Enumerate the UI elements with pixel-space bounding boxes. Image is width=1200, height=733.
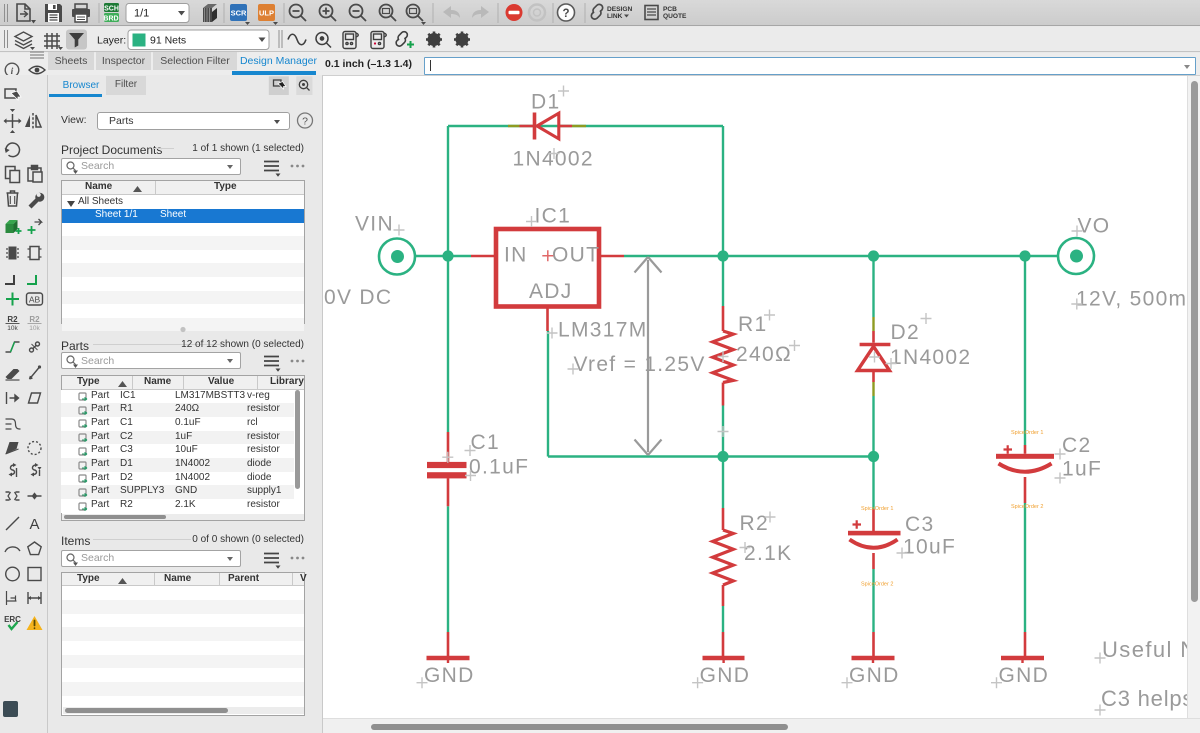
wire D2 lower [872, 396, 874, 457]
svg-text:QUOTE: QUOTE [663, 13, 687, 20]
capacitor C2 leads [1024, 445, 1027, 656]
wire C3 upper [872, 457, 874, 510]
capacitor C3 straight plate [848, 531, 901, 536]
svg-text:IN: IN [504, 244, 528, 267]
pin D1 cathode lead [520, 125, 534, 128]
svg-text:1N4002: 1N4002 [890, 346, 971, 369]
svg-text:LINK: LINK [607, 13, 623, 20]
svg-text:R2: R2 [29, 315, 40, 324]
value LM317M of IC1 [558, 319, 648, 342]
pin stub D2 anode overlap [872, 382, 874, 396]
svg-text:SpiceOrder 2: SpiceOrder 2 [861, 582, 893, 588]
svg-text:SCR: SCR [231, 9, 247, 18]
svg-text:D2: D2 [891, 321, 920, 344]
note 12V 500mA [1076, 288, 1200, 311]
invoke [7, 392, 19, 404]
svg-text:A: A [29, 516, 39, 533]
label C3 [905, 513, 934, 536]
value 10uF of C3 [903, 536, 956, 559]
pin stub D1 anode overlap [508, 125, 520, 127]
pin IC1 IN lead [471, 255, 496, 258]
trash [7, 191, 19, 206]
pcb quote [645, 6, 658, 20]
stop sign red [506, 4, 523, 21]
svg-text:GND: GND [849, 664, 900, 687]
svg-text:SpiceOrder 1: SpiceOrder 1 [1011, 430, 1043, 436]
library icon [203, 4, 217, 22]
add part green cube [6, 220, 22, 234]
label R1 [738, 313, 767, 336]
ground symbol under C1 [427, 658, 470, 663]
pinswap [28, 219, 42, 234]
capacitor C1 leads [447, 432, 450, 656]
pin D1 anode lead [559, 125, 572, 128]
node VIN label [355, 213, 394, 236]
zoom-dot [316, 33, 331, 48]
wire IC1 OUT to VO [624, 255, 1059, 257]
grid icon [44, 33, 60, 49]
svg-text:C2: C2 [1062, 434, 1091, 457]
wire left vertical of D1 net [447, 126, 449, 256]
pin name ADJ [529, 280, 573, 303]
sheet combo [126, 4, 189, 23]
svg-text:R2: R2 [740, 512, 769, 535]
browser/filter tabs [60, 77, 102, 94]
file new icon [17, 4, 30, 21]
mirror [25, 113, 41, 129]
value 1N4002 of D2 [890, 346, 971, 369]
junction at C2 column top [1019, 250, 1030, 261]
bus [6, 419, 21, 429]
port VIN dot [391, 250, 404, 263]
capacitor C2 straight plate [996, 454, 1054, 459]
AB label icon [27, 293, 43, 305]
svg-text:D1: D1 [531, 91, 560, 114]
junction [6, 293, 19, 306]
wire R1 lower to ADJ net [722, 406, 724, 457]
spice order text C3 bottom [861, 582, 893, 588]
pin stub D1 cathode overlap [572, 125, 586, 127]
paste [28, 166, 42, 183]
wire ADJ vertical [547, 331, 549, 457]
svg-text:ULP: ULP [259, 9, 274, 18]
documents list [61, 180, 305, 324]
svg-text:VO: VO [1078, 215, 1111, 238]
gears [426, 32, 470, 48]
funnel (pressed) [66, 30, 87, 50]
value icons [6, 315, 20, 332]
svg-text:SCH: SCH [104, 6, 119, 13]
wire C1 branch upper [447, 256, 449, 432]
dimension arrow Vref [635, 257, 662, 455]
line + text [6, 517, 19, 530]
ground symbol under C3 [852, 658, 895, 663]
design link [591, 4, 602, 19]
capacitor C1 bottom plate [427, 472, 467, 478]
value 1N4002 of D1 [513, 148, 594, 171]
help [558, 4, 575, 21]
junction ADJ net at C3 [868, 451, 879, 462]
svg-text:Useful Notes: Useful Notes [1102, 637, 1200, 662]
svg-text:Vref = 1.25V: Vref = 1.25V [574, 353, 706, 376]
copy [6, 167, 20, 183]
svg-text:ERC: ERC [4, 615, 21, 624]
svg-text:DESIGN: DESIGN [607, 6, 633, 13]
svg-text:R2: R2 [7, 315, 18, 324]
svg-text:1N4002: 1N4002 [513, 148, 594, 171]
svg-text:40V DC: 40V DC [323, 286, 392, 309]
svg-text:0.1uF: 0.1uF [469, 456, 529, 479]
value 1uF of C2 [1062, 458, 1102, 481]
svg-text:91 Nets: 91 Nets [150, 35, 186, 47]
label D2 [891, 321, 920, 344]
svg-text:IC1: IC1 [535, 205, 572, 228]
parts list [61, 375, 305, 521]
port VO dot [1070, 250, 1083, 263]
pin IC1 OUT lead [599, 255, 624, 258]
ground symbol under C2 [1001, 658, 1044, 663]
label C2 [1062, 434, 1091, 457]
svg-text:ADJ: ADJ [529, 280, 573, 303]
value 2.1K of R2 [744, 542, 792, 565]
canvas vertical scrollbar [1187, 76, 1200, 733]
undo/redo (disabled) [443, 6, 489, 18]
capacitor C3 curved plate [850, 540, 898, 548]
polygon paint [6, 442, 19, 454]
eraser / ripup [6, 369, 20, 380]
note Vref = 1.25V [574, 353, 706, 376]
resistor R2 zigzag [713, 530, 734, 585]
canvas horizontal scrollbar [323, 718, 1200, 733]
move [4, 109, 22, 133]
SCH/BRD [103, 3, 119, 23]
spice order text C2 top [1011, 430, 1043, 436]
svg-text:1uF: 1uF [1062, 458, 1102, 481]
wire C3 lower to GND [872, 569, 874, 632]
op-amp regulator IC1 body [496, 229, 599, 307]
parts rows [61, 390, 294, 514]
wire R1 upper [722, 256, 724, 306]
ic solid [6, 247, 19, 260]
meter icons [343, 32, 386, 49]
origin cross IC1 red [542, 250, 553, 261]
rotate [5, 143, 20, 157]
svg-text:AB: AB [29, 295, 41, 305]
svg-text:10uF: 10uF [903, 536, 956, 559]
meander [6, 492, 20, 500]
svg-text:10k: 10k [29, 325, 40, 332]
resistor R1 leads [722, 306, 725, 406]
wire right vertical of D1 net [722, 126, 724, 256]
capacitor C3 leads [872, 509, 875, 656]
svg-text:C3: C3 [905, 513, 934, 536]
wire C1 branch lower [447, 506, 449, 632]
junction ADJ net at R2 [717, 451, 728, 462]
wire top net from D1 anode corner to D1 cathode corner [448, 125, 723, 127]
pin D2 anode lead [872, 371, 875, 383]
svg-text:OUT: OUT [552, 244, 600, 267]
capacitor C1 top plate [427, 462, 467, 468]
svg-text:GND: GND [424, 664, 475, 687]
origin crosses [394, 86, 1106, 716]
parts list scrollbars [295, 390, 300, 489]
disabled circle [529, 5, 545, 21]
svg-text:R1: R1 [738, 313, 767, 336]
diode D2 cathode bar [860, 343, 891, 347]
svg-text:?: ? [562, 8, 569, 20]
zoom icons [290, 5, 424, 22]
wire ADJ horizontal [548, 455, 874, 457]
capacitor C2 curved plate [999, 464, 1052, 472]
print icon [72, 4, 90, 22]
net wire [5, 275, 14, 284]
value 0.1uF of C1 [469, 456, 529, 479]
view row [61, 114, 87, 126]
wire C2 lower to GND [1024, 503, 1026, 632]
layers icon [15, 32, 32, 49]
svg-text:SpiceOrder 2: SpiceOrder 2 [1011, 504, 1043, 510]
capacitor C2 polarity plus [1004, 445, 1013, 453]
wire R2 upper [722, 457, 724, 509]
wire R2 lower to GND [722, 606, 724, 632]
pin name OUT [552, 244, 600, 267]
select group [5, 89, 16, 98]
label C1 [471, 431, 500, 454]
spice order text C3 top [861, 506, 893, 512]
pin IC1 ADJ lead [546, 307, 549, 332]
erc [4, 615, 21, 629]
wire D2 upper [872, 256, 874, 317]
wire VIN to IC1 IN [414, 255, 471, 257]
label D1 [531, 91, 560, 114]
ground GND label R2 [700, 664, 751, 687]
wrench [29, 193, 45, 209]
ground symbol under R2 [703, 658, 745, 663]
diode D1 triangle [537, 113, 559, 139]
svg-text:GND: GND [700, 664, 751, 687]
Project Documents section [61, 143, 162, 157]
Items section [61, 534, 90, 548]
ULP icon [258, 4, 275, 21]
resistor R1 zigzag [713, 331, 734, 383]
svg-text:PCB: PCB [663, 6, 677, 13]
spice order text C2 bottom [1011, 504, 1043, 510]
value 240 ohm of R1 [736, 343, 792, 366]
wire C2 upper [1024, 256, 1026, 445]
resistor R2 leads [722, 508, 725, 656]
svg-text:SpiceOrder 1: SpiceOrder 1 [861, 506, 893, 512]
arc + polygon [5, 547, 20, 552]
SCR icon [230, 4, 247, 21]
Parts section [61, 339, 89, 353]
svg-text:1/1: 1/1 [134, 8, 149, 20]
label IC1 [535, 205, 572, 228]
note 40V DC [311, 286, 392, 309]
sine [288, 34, 306, 45]
label R2 [740, 512, 769, 535]
bottom dark icon [3, 701, 18, 717]
note C3 helps [1101, 686, 1200, 711]
ground GND label C3 [849, 664, 900, 687]
diode D1 cathode bar [533, 113, 537, 140]
save icon [45, 4, 62, 22]
svg-text:LM317M: LM317M [558, 319, 648, 342]
ground GND label C2 [999, 664, 1050, 687]
pin D2 cathode lead [872, 331, 875, 343]
pin stub D2 cathode overlap [872, 317, 874, 331]
grip + info/eye icons on strip top [0, 49, 48, 79]
svg-text:C3 helps stability: C3 helps stability [1101, 686, 1200, 711]
junction at VIN column [442, 250, 453, 261]
svg-text:?: ? [302, 116, 308, 128]
port VIN ring [379, 239, 415, 275]
items list [61, 572, 305, 716]
miter/split [6, 342, 20, 352]
svg-text:2.1K: 2.1K [744, 542, 792, 565]
diode D2 triangle [858, 347, 890, 371]
svg-text:Layer:: Layer: [97, 35, 126, 47]
svg-text:10k: 10k [7, 325, 18, 332]
link plus [396, 32, 407, 47]
note Useful Notes [1102, 637, 1200, 662]
ground GND label C1 [424, 664, 475, 687]
circle + rect [6, 567, 20, 581]
port VO ring [1058, 238, 1094, 274]
ic outline [28, 247, 42, 260]
pin name IN [504, 244, 528, 267]
node VO label [1078, 215, 1111, 238]
optimize [9, 463, 17, 477]
svg-text:12V, 500mA: 12V, 500mA [1076, 288, 1200, 311]
svg-text:GND: GND [999, 664, 1050, 687]
capacitor C3 polarity plus [853, 520, 862, 528]
svg-text:240Ω: 240Ω [736, 343, 792, 366]
junction at R1 column top [717, 250, 728, 261]
svg-text:VIN: VIN [355, 213, 394, 236]
svg-text:BRD: BRD [103, 16, 118, 23]
junction at D2 column top [868, 250, 879, 261]
dimension [7, 591, 17, 605]
